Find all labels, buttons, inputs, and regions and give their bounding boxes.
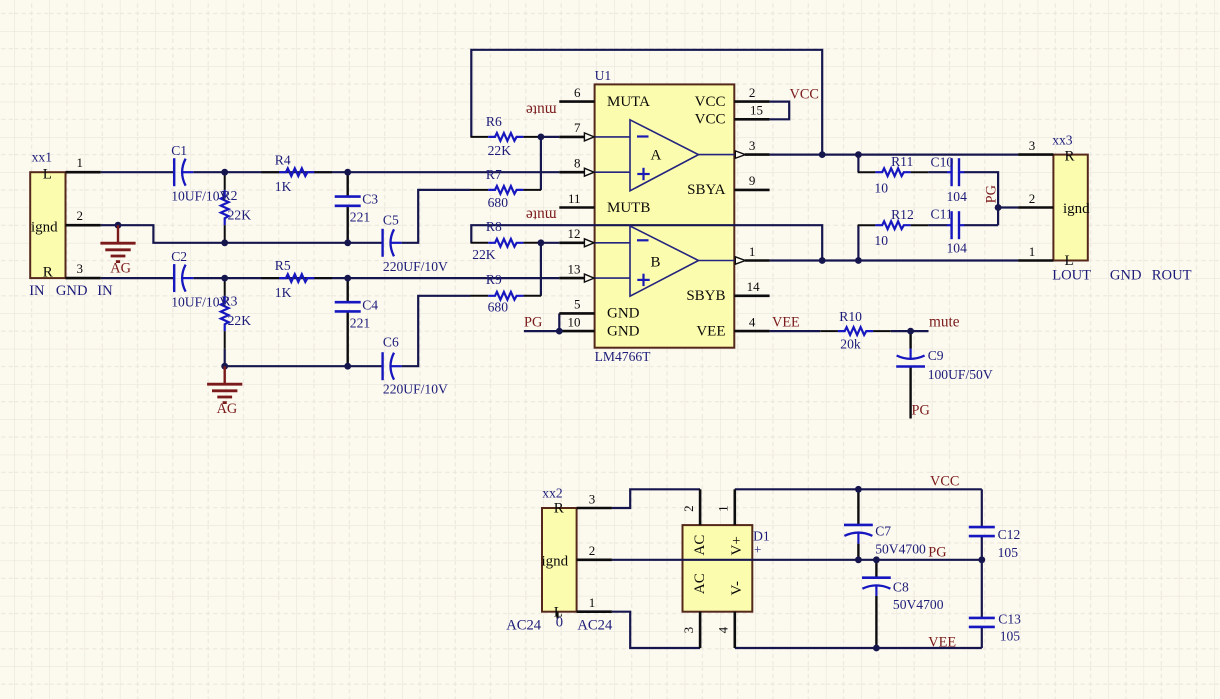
svg-text:R11: R11: [891, 154, 913, 169]
svg-text:B: B: [651, 254, 661, 270]
svg-text:221: 221: [350, 210, 370, 225]
svg-text:1: 1: [749, 244, 756, 259]
svg-text:104: 104: [947, 241, 968, 256]
svg-text:R8: R8: [486, 219, 502, 234]
svg-text:C5: C5: [383, 212, 399, 227]
svg-text:2: 2: [1029, 191, 1036, 206]
svg-text:AC24: AC24: [506, 617, 542, 633]
svg-text:1: 1: [1029, 244, 1036, 259]
svg-text:R9: R9: [486, 272, 502, 287]
svg-text:3: 3: [589, 491, 596, 506]
svg-text:R6: R6: [486, 114, 502, 129]
svg-text:AG: AG: [110, 260, 131, 276]
svg-text:IN: IN: [97, 283, 113, 299]
svg-text:R7: R7: [486, 167, 502, 182]
svg-text:R: R: [1065, 149, 1075, 165]
svg-text:105: 105: [998, 545, 1019, 560]
svg-text:U1: U1: [595, 68, 612, 83]
svg-text:AG: AG: [217, 401, 238, 417]
svg-text:SBYB: SBYB: [686, 288, 725, 304]
svg-text:1: 1: [589, 595, 596, 610]
svg-text:15: 15: [750, 103, 763, 118]
svg-text:L: L: [1065, 253, 1074, 269]
svg-text:50V4700: 50V4700: [893, 597, 944, 612]
svg-text:680: 680: [488, 299, 509, 314]
svg-text:3: 3: [749, 138, 756, 153]
svg-text:ignd: ignd: [31, 220, 58, 236]
svg-text:C2: C2: [171, 249, 187, 264]
svg-text:220UF/10V: 220UF/10V: [383, 259, 448, 274]
svg-text:MUTA: MUTA: [607, 94, 650, 110]
svg-text:C10: C10: [931, 155, 954, 170]
svg-text:GND: GND: [607, 306, 640, 322]
svg-text:L: L: [554, 605, 563, 621]
svg-text:xx1: xx1: [32, 150, 52, 165]
svg-text:7: 7: [574, 120, 581, 135]
svg-text:220UF/10V: 220UF/10V: [383, 382, 448, 397]
svg-text:2: 2: [749, 85, 756, 100]
svg-text:A: A: [651, 148, 662, 164]
svg-text:GND: GND: [56, 283, 88, 299]
svg-text:680: 680: [488, 195, 509, 210]
svg-text:5: 5: [574, 297, 581, 312]
svg-text:22K: 22K: [472, 247, 496, 262]
svg-text:C6: C6: [383, 335, 399, 350]
svg-text:V-: V-: [729, 581, 745, 595]
svg-text:GND: GND: [1110, 267, 1142, 283]
svg-text:20k: 20k: [840, 336, 861, 351]
svg-text:MUTB: MUTB: [607, 200, 650, 216]
svg-text:C12: C12: [998, 527, 1021, 542]
svg-text:3: 3: [681, 627, 696, 634]
svg-text:22K: 22K: [228, 313, 252, 328]
svg-text:mute: mute: [526, 207, 557, 224]
svg-text:PG: PG: [912, 403, 930, 419]
svg-text:2: 2: [681, 505, 696, 512]
svg-text:mute: mute: [526, 102, 557, 119]
svg-text:R2: R2: [222, 188, 238, 203]
svg-text:12: 12: [568, 226, 581, 241]
svg-text:LM4766T: LM4766T: [595, 349, 652, 364]
svg-text:104: 104: [947, 189, 968, 204]
svg-text:3: 3: [77, 261, 84, 276]
svg-text:mute: mute: [929, 313, 960, 330]
svg-text:ignd: ignd: [542, 554, 569, 570]
svg-text:VCC: VCC: [695, 112, 726, 128]
svg-text:22K: 22K: [228, 207, 252, 222]
svg-text:1: 1: [716, 505, 731, 512]
svg-text:ROUT: ROUT: [1152, 267, 1192, 283]
svg-text:6: 6: [574, 85, 581, 100]
svg-text:C4: C4: [362, 297, 378, 312]
svg-text:2: 2: [589, 543, 596, 558]
svg-text:C9: C9: [928, 348, 944, 363]
svg-text:VEE: VEE: [928, 635, 956, 651]
svg-text:PG: PG: [524, 314, 542, 330]
svg-text:+: +: [754, 541, 761, 556]
svg-text:13: 13: [568, 261, 581, 276]
svg-text:xx3: xx3: [1052, 133, 1073, 148]
svg-text:C1: C1: [171, 143, 187, 158]
svg-text:9: 9: [749, 173, 756, 188]
svg-text:10: 10: [568, 314, 581, 329]
svg-text:22K: 22K: [488, 143, 512, 158]
svg-text:1K: 1K: [275, 179, 292, 194]
svg-text:AC24: AC24: [577, 617, 613, 633]
svg-text:VCC: VCC: [790, 87, 819, 103]
svg-text:C7: C7: [875, 524, 891, 539]
svg-text:IN: IN: [29, 283, 45, 299]
svg-text:R: R: [554, 501, 564, 517]
svg-text:VCC: VCC: [695, 94, 726, 110]
svg-text:xx2: xx2: [542, 486, 563, 501]
svg-text:4: 4: [749, 314, 756, 329]
svg-text:C3: C3: [362, 192, 378, 207]
svg-text:4: 4: [716, 626, 731, 633]
svg-text:AC: AC: [692, 535, 708, 556]
svg-text:R12: R12: [891, 207, 914, 222]
svg-text:PG: PG: [984, 185, 1000, 203]
svg-text:C8: C8: [893, 580, 909, 595]
svg-text:VEE: VEE: [696, 323, 725, 339]
svg-text:V+: V+: [729, 536, 745, 555]
svg-text:11: 11: [568, 191, 581, 206]
svg-text:10: 10: [874, 233, 888, 248]
svg-text:PG: PG: [928, 544, 946, 560]
svg-text:221: 221: [350, 315, 370, 330]
svg-text:50V4700: 50V4700: [875, 542, 926, 557]
svg-text:105: 105: [1000, 628, 1021, 643]
svg-text:8: 8: [574, 156, 581, 171]
svg-text:LOUT: LOUT: [1052, 267, 1091, 283]
svg-text:1: 1: [77, 155, 84, 170]
svg-text:2: 2: [77, 208, 84, 223]
svg-text:1K: 1K: [275, 285, 292, 300]
svg-text:R5: R5: [275, 258, 291, 273]
svg-text:AC: AC: [692, 573, 708, 594]
svg-text:ignd: ignd: [1063, 201, 1090, 217]
svg-text:14: 14: [747, 279, 761, 294]
svg-text:10: 10: [874, 180, 888, 195]
svg-text:SBYA: SBYA: [687, 182, 726, 198]
svg-text:C11: C11: [931, 207, 953, 222]
svg-text:C13: C13: [998, 612, 1021, 627]
svg-text:VEE: VEE: [772, 314, 800, 330]
svg-text:R10: R10: [839, 309, 862, 324]
svg-text:R3: R3: [222, 294, 238, 309]
svg-text:100UF/50V: 100UF/50V: [928, 367, 993, 382]
svg-text:R4: R4: [275, 152, 291, 167]
svg-text:R: R: [43, 265, 53, 281]
svg-text:3: 3: [1029, 138, 1036, 153]
svg-text:GND: GND: [607, 323, 640, 339]
svg-text:L: L: [43, 166, 52, 182]
svg-text:VCC: VCC: [930, 474, 959, 490]
